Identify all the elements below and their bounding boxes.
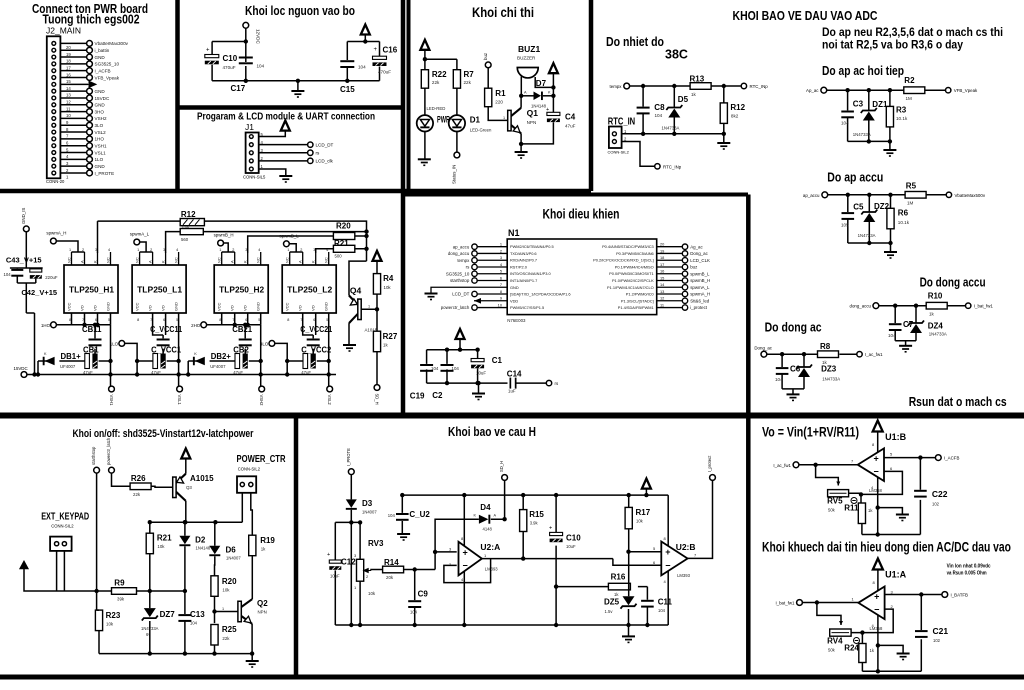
capacitor C8 xyxy=(637,107,650,115)
row B wire TLP250_L2 xyxy=(287,313,329,389)
svg-text:GND_IS: GND_IS xyxy=(21,208,26,224)
svg-text:VSL2: VSL2 xyxy=(327,395,332,406)
terminal Status_IN xyxy=(454,152,460,158)
svg-text:Do dong ac: Do dong ac xyxy=(765,320,822,334)
svg-text:2: 2 xyxy=(500,248,502,253)
wire spwmB_H to pins xyxy=(222,243,235,252)
svg-text:19: 19 xyxy=(660,248,664,253)
svg-text:Khoi khuech dai tin hieu dong: Khoi khuech dai tin hieu dong dien AC/DC… xyxy=(762,539,1011,554)
bottom rail ap accu xyxy=(848,242,891,244)
svg-text:VDD: VDD xyxy=(510,298,518,303)
terminal 3LO xyxy=(269,341,275,347)
resistor R15 xyxy=(520,510,527,532)
svg-text:RTC_INp: RTC_INp xyxy=(663,164,682,169)
wire ap accu rail xyxy=(828,194,946,196)
svg-text:I_bat_fw1: I_bat_fw1 xyxy=(775,601,795,606)
svg-text:50k: 50k xyxy=(828,508,836,513)
svg-text:R24: R24 xyxy=(844,644,859,653)
terminal 12VDC xyxy=(243,22,249,28)
svg-text:R5: R5 xyxy=(906,182,917,191)
svg-text:Q1: Q1 xyxy=(527,108,539,118)
wire power to caps C15 C16 xyxy=(347,35,379,81)
svg-text:Khoi loc nguon vao bo: Khoi loc nguon vao bo xyxy=(245,3,355,18)
wire R1 to Q1 base xyxy=(488,107,507,121)
svg-text:VCC: VCC xyxy=(217,302,222,311)
zener DZ1 xyxy=(861,108,877,121)
svg-text:R27: R27 xyxy=(383,332,398,341)
svg-text:1k: 1k xyxy=(691,92,697,97)
svg-text:VFB_Vpeak: VFB_Vpeak xyxy=(95,75,120,80)
svg-text:500: 500 xyxy=(335,254,343,259)
svg-text:buz: buz xyxy=(690,265,697,270)
svg-text:Khoi bao ve cau H: Khoi bao ve cau H xyxy=(448,425,536,439)
svg-text:C16: C16 xyxy=(383,46,398,55)
wire R26 to Q3 base xyxy=(151,486,173,487)
ground U1A xyxy=(897,654,910,660)
svg-text:11: 11 xyxy=(660,302,664,307)
svg-text:DZ4: DZ4 xyxy=(928,322,944,331)
optocoupler TLP250_L1 xyxy=(132,265,186,313)
svg-text:R12: R12 xyxy=(181,210,196,219)
power arrow J1 xyxy=(281,121,290,131)
wire U1B plus out to I_ACFB xyxy=(884,457,935,459)
svg-text:spwmA_H: spwmA_H xyxy=(46,231,66,236)
svg-text:R8: R8 xyxy=(820,342,831,351)
svg-text:C8: C8 xyxy=(654,103,665,112)
svg-text:GND: GND xyxy=(95,89,106,94)
terminal VFB_Vpeak xyxy=(946,88,951,93)
svg-text:3LO: 3LO xyxy=(260,341,269,346)
svg-text:220uF: 220uF xyxy=(45,275,58,280)
svg-text:K: K xyxy=(93,260,98,263)
svg-text:VSL1: VSL1 xyxy=(177,395,182,406)
wire bus2 L1 pin3 through R12b xyxy=(166,232,367,253)
N1 inner pin name texts xyxy=(510,244,655,310)
wire U2A power pins xyxy=(463,495,465,625)
diode DB2 xyxy=(193,357,205,366)
wire C12 column xyxy=(334,522,336,625)
svg-text:38C: 38C xyxy=(665,48,688,62)
svg-text:C4: C4 xyxy=(565,113,576,122)
resistor R20 onoff xyxy=(211,576,218,597)
svg-text:50k: 50k xyxy=(828,648,836,653)
svg-text:1.5v: 1.5v xyxy=(605,609,614,614)
svg-text:7: 7 xyxy=(500,282,502,287)
wire D4 wiring xyxy=(435,480,505,552)
svg-text:20: 20 xyxy=(66,45,71,50)
svg-text:1N4733A: 1N4733A xyxy=(853,132,871,137)
svg-text:C21: C21 xyxy=(933,626,949,636)
svg-text:R23: R23 xyxy=(106,611,121,620)
svg-text:10k: 10k xyxy=(636,519,644,524)
svg-text:C43_V+15: C43_V+15 xyxy=(6,256,42,265)
wire U1B power bottom xyxy=(878,477,903,534)
svg-text:D4: D4 xyxy=(480,503,491,512)
svg-text:C5: C5 xyxy=(853,203,864,212)
svg-text:VCC: VCC xyxy=(67,302,72,311)
wire C7 branch xyxy=(894,306,896,341)
svg-text:10uF: 10uF xyxy=(330,574,340,579)
svg-text:P0.3/PWM5/IC5/AIN6: P0.3/PWM5/IC5/AIN6 xyxy=(616,251,654,256)
svg-text:GND: GND xyxy=(256,302,261,311)
svg-text:1k: 1k xyxy=(929,312,935,317)
svg-text:NC: NC xyxy=(67,257,72,263)
svg-text:1: 1 xyxy=(503,116,505,120)
ground on off xyxy=(246,661,259,667)
wire 1LO column xyxy=(125,343,137,374)
wire LED D1 to Status terminal xyxy=(456,132,458,153)
svg-text:TLP250_L2: TLP250_L2 xyxy=(287,285,332,295)
svg-text:i_battin: i_battin xyxy=(95,48,110,53)
transistor Q2 xyxy=(238,599,252,624)
terminal Dong_ac xyxy=(761,351,767,357)
zener DZ2 xyxy=(861,210,877,223)
svg-text:D1: D1 xyxy=(470,115,481,124)
svg-text:12: 12 xyxy=(66,100,71,105)
svg-text:8: 8 xyxy=(500,289,502,294)
svg-text:19: 19 xyxy=(66,52,71,57)
svg-text:18: 18 xyxy=(660,255,664,260)
svg-text:SD_H: SD_H xyxy=(499,461,504,472)
terminal ap_accu xyxy=(822,192,828,198)
svg-text:VSH2: VSH2 xyxy=(95,116,107,121)
wire R6 branch xyxy=(890,195,892,252)
svg-text:NC: NC xyxy=(174,257,179,263)
svg-text:104: 104 xyxy=(410,610,418,615)
svg-text:R20: R20 xyxy=(222,577,237,586)
wire R7 to LED D1 xyxy=(456,88,458,115)
wire dong ac rail xyxy=(767,353,857,355)
svg-text:spwmB_H: spwmB_H xyxy=(690,278,710,283)
svg-text:A: A xyxy=(230,260,235,263)
svg-text:105: 105 xyxy=(841,223,849,228)
svg-text:104: 104 xyxy=(888,333,896,338)
svg-text:VO: VO xyxy=(161,305,166,311)
svg-text:+: + xyxy=(665,547,670,557)
terminal RTC_INp right xyxy=(741,83,746,88)
svg-text:R17: R17 xyxy=(636,508,651,517)
svg-text:Tuong thich egs002: Tuong thich egs002 xyxy=(43,13,140,27)
power arrow right xyxy=(361,25,370,35)
resistor R21 onoff xyxy=(146,533,153,554)
svg-text:R20: R20 xyxy=(336,222,351,231)
svg-text:D3: D3 xyxy=(362,499,373,508)
svg-text:GND: GND xyxy=(106,302,111,311)
svg-text:Stt&6_led: Stt&6_led xyxy=(690,298,710,303)
row B wire TLP250_H2 xyxy=(188,325,261,389)
svg-text:P0.1/PWM4/IC4/MISO: P0.1/PWM4/IC4/MISO xyxy=(615,264,654,269)
svg-text:C42_V+15: C42_V+15 xyxy=(21,288,57,297)
wire J1 pin5 to power xyxy=(259,131,286,137)
svg-text:GND: GND xyxy=(324,302,329,311)
svg-text:Do dong accu: Do dong accu xyxy=(920,276,986,290)
svg-text:47uF: 47uF xyxy=(565,124,576,129)
svg-text:10k: 10k xyxy=(157,544,165,549)
svg-text:560: 560 xyxy=(181,237,189,242)
wire Q3 collector down xyxy=(185,501,187,522)
svg-text:K: K xyxy=(311,260,316,263)
bottom rail U1B xyxy=(862,534,921,536)
svg-text:2HO: 2HO xyxy=(191,323,201,328)
svg-text:Ap_ac: Ap_ac xyxy=(806,88,819,93)
svg-text:P1.0/PWM2/IC2/SPCLK: P1.0/PWM2/IC2/SPCLK xyxy=(612,278,654,283)
svg-text:Vo = Vin(1+RV/R11): Vo = Vin(1+RV/R11) xyxy=(762,425,859,440)
svg-text:1: 1 xyxy=(500,242,502,247)
svg-text:R11: R11 xyxy=(844,504,859,513)
svg-text:8: 8 xyxy=(137,318,139,322)
svg-text:R10: R10 xyxy=(928,291,943,300)
svg-text:R15: R15 xyxy=(529,510,544,519)
wire buzzer right pin to power column xyxy=(535,77,553,87)
svg-text:R12: R12 xyxy=(730,103,745,112)
wire DZ1 branch xyxy=(868,90,870,141)
svg-text:3LO: 3LO xyxy=(95,123,104,128)
terminal VSH2 xyxy=(259,386,265,392)
terminal LCD_clk xyxy=(308,158,313,163)
svg-text:VCC: VCC xyxy=(285,302,290,311)
terminal RTC_INp lower xyxy=(655,164,660,169)
svg-text:spwmA_L: spwmA_L xyxy=(130,232,150,237)
svg-text:C_VCC11: C_VCC11 xyxy=(150,325,183,334)
bottom rail dong ac xyxy=(782,389,804,395)
svg-text:C12: C12 xyxy=(341,557,356,566)
svg-text:NC: NC xyxy=(285,257,290,263)
wire R22 to LED PWR xyxy=(424,88,426,115)
terminal starthstop xyxy=(94,467,100,473)
svg-text:−: − xyxy=(874,467,879,477)
diode D7 xyxy=(534,92,543,101)
wire DZ4 branch xyxy=(915,306,917,341)
bottom rail ap ac xyxy=(848,140,890,142)
terminal Ap_ac xyxy=(821,87,827,93)
svg-text:1: 1 xyxy=(222,607,224,611)
wire D3 to node row xyxy=(335,510,360,625)
wire pwr rail to R22 R7 xyxy=(425,50,457,70)
svg-text:220: 220 xyxy=(495,100,503,105)
svg-text:DZ3: DZ3 xyxy=(821,365,837,374)
svg-text:104: 104 xyxy=(358,65,366,70)
wire 12VDC to rail xyxy=(212,28,246,81)
svg-text:GND: GND xyxy=(174,302,179,311)
svg-text:C1: C1 xyxy=(492,356,503,365)
wire R14 to opamp plus xyxy=(404,552,457,570)
wire C6 branch xyxy=(781,354,783,389)
terminal buz xyxy=(485,62,491,68)
svg-text:15VDC: 15VDC xyxy=(14,366,28,371)
svg-text:U1:A: U1:A xyxy=(885,570,907,580)
svg-text:NC: NC xyxy=(106,257,111,263)
top VCC rail cau H xyxy=(402,494,668,496)
power arrow Q3 xyxy=(181,449,190,459)
svg-text:LED-RED: LED-RED xyxy=(427,106,446,111)
terminal I_bat_fw1 amp xyxy=(797,600,803,606)
svg-text:R26: R26 xyxy=(131,474,146,483)
svg-text:1M: 1M xyxy=(906,96,913,101)
svg-text:104: 104 xyxy=(775,377,783,382)
wire ap ac rail xyxy=(827,89,946,91)
node dots nhiet rail xyxy=(641,84,677,88)
resistor R12 adc xyxy=(720,103,727,124)
N1 right pin wires terminals xyxy=(657,242,711,311)
svg-text:BUZ1: BUZ1 xyxy=(518,44,540,54)
terminal LCD_DT xyxy=(308,142,313,147)
svg-text:U2:B: U2:B xyxy=(676,542,696,552)
node dots D7 power xyxy=(551,85,555,98)
svg-text:U1:B: U1:B xyxy=(885,432,907,442)
wire RV3 wiper to R14 xyxy=(371,570,383,571)
svg-text:TLP250_H2: TLP250_H2 xyxy=(219,285,264,295)
svg-text:buz: buz xyxy=(483,53,488,60)
svg-text:4: 4 xyxy=(108,248,110,252)
svg-text:SG3525_10: SG3525_10 xyxy=(95,62,120,67)
svg-text:Q3: Q3 xyxy=(186,485,192,490)
svg-text:R2: R2 xyxy=(904,76,915,85)
svg-text:NC: NC xyxy=(135,257,140,263)
svg-text:C_U2: C_U2 xyxy=(409,510,430,519)
wire R27 to SD_H terminal xyxy=(376,352,378,385)
svg-text:+: + xyxy=(546,107,549,113)
svg-text:C2: C2 xyxy=(432,391,443,400)
svg-text:LED-Green: LED-Green xyxy=(470,128,492,133)
svg-text:SG3525_10: SG3525_10 xyxy=(446,271,470,276)
power arrow dieu khien xyxy=(456,329,465,339)
terminal rs xyxy=(308,150,313,155)
wire D5 branch xyxy=(673,86,675,134)
terminal spwmB_L xyxy=(284,241,290,247)
svg-text:Dong_ac: Dong_ac xyxy=(754,346,772,351)
svg-text:1N4733A: 1N4733A xyxy=(858,233,876,238)
svg-text:VO: VO xyxy=(148,305,153,311)
resistor R2 xyxy=(904,87,925,94)
diode DB1 xyxy=(43,357,55,366)
capacitor C_U2 xyxy=(401,495,403,534)
svg-text:C9: C9 xyxy=(418,590,429,599)
svg-text:P0.4/AIN5/STADC/PWM3/IC3: P0.4/AIN5/STADC/PWM3/IC3 xyxy=(602,244,654,249)
resistor R10 xyxy=(926,302,947,309)
terminal tempx xyxy=(624,83,630,89)
svg-text:Rsun dat o mach cs: Rsun dat o mach cs xyxy=(909,394,1007,409)
wire C5 branch xyxy=(847,195,849,243)
potentiometer RV4 xyxy=(830,629,851,636)
zener DZ5 xyxy=(621,596,637,609)
svg-text:Khoi chi thi: Khoi chi thi xyxy=(472,5,534,20)
svg-text:I_ac_fw1: I_ac_fw1 xyxy=(865,352,883,357)
svg-text:5: 5 xyxy=(500,269,502,274)
svg-text:1N4733A: 1N4733A xyxy=(662,126,680,131)
svg-text:starthstop: starthstop xyxy=(450,278,470,283)
svg-text:DZ5: DZ5 xyxy=(604,598,620,607)
svg-text:I_PROTE: I_PROTE xyxy=(346,448,351,466)
wire DZ3 branch xyxy=(803,354,805,389)
optocoupler TLP250_L2 xyxy=(282,265,336,313)
wire GND_IS to caps xyxy=(10,232,43,375)
capacitor C7 xyxy=(889,323,902,331)
svg-text:C19: C19 xyxy=(410,392,425,401)
wire output row to U2B xyxy=(523,552,661,559)
capacitor C3 xyxy=(841,111,854,119)
svg-text:J1: J1 xyxy=(245,122,254,132)
wire spwmA_L to pins xyxy=(140,242,153,252)
svg-text:R9: R9 xyxy=(114,579,125,588)
svg-text:spwmA_H: spwmA_H xyxy=(690,292,710,297)
svg-text:GND: GND xyxy=(95,55,106,60)
svg-text:1N4007: 1N4007 xyxy=(362,510,377,515)
svg-text:Do ap accu: Do ap accu xyxy=(827,171,883,185)
capacitor C17 xyxy=(239,57,253,65)
J2_MAIN pin wires xyxy=(60,43,88,173)
terminal VbatteMax500v xyxy=(946,192,951,197)
wire R21 column xyxy=(149,522,151,608)
wire Q3 emitter to power xyxy=(185,459,187,474)
terminal I_ACFB xyxy=(935,455,941,461)
terminal VSH1 xyxy=(109,386,115,392)
zener D5 xyxy=(666,105,682,118)
wire D7 anode xyxy=(521,95,533,97)
capacitor C10 cau xyxy=(555,495,557,625)
svg-text:VSL2: VSL2 xyxy=(95,130,107,135)
svg-text:Vin lon nhat 0.09vdc: Vin lon nhat 0.09vdc xyxy=(947,564,991,570)
svg-text:1uF: 1uF xyxy=(508,389,516,394)
svg-text:NPN: NPN xyxy=(527,120,537,125)
svg-text:47uF: 47uF xyxy=(301,370,311,375)
wire R15 column xyxy=(522,495,524,558)
svg-text:spwmB_L: spwmB_L xyxy=(690,271,710,276)
svg-text:GND: GND xyxy=(95,103,106,108)
wire DZ7 to rail xyxy=(149,621,151,654)
wire POWER_CTR pins down xyxy=(242,493,252,535)
resistor R7 xyxy=(453,70,460,89)
wire Q1 collector xyxy=(520,96,522,108)
svg-text:17: 17 xyxy=(660,262,664,267)
svg-text:I_ACFB: I_ACFB xyxy=(944,456,959,461)
wire cap top rail xyxy=(427,339,478,364)
svg-text:I_ac_fw1: I_ac_fw1 xyxy=(773,463,791,468)
svg-text:1k: 1k xyxy=(261,547,266,552)
capacitor C19 xyxy=(420,364,433,372)
svg-text:1: 1 xyxy=(137,248,139,252)
svg-text:RXD/AIN2/P0.7: RXD/AIN2/P0.7 xyxy=(510,258,537,263)
capacitor C15 xyxy=(340,60,354,68)
wire R25 to rail xyxy=(214,645,216,654)
wire C14 to rs xyxy=(516,382,546,384)
svg-text:VO: VO xyxy=(311,305,316,311)
wire R24 to rail xyxy=(861,663,863,672)
wire I_bat_fw1 to apex xyxy=(802,602,858,604)
svg-text:VSH1: VSH1 xyxy=(109,395,114,407)
svg-text:15VDC: 15VDC xyxy=(95,96,110,101)
ground LED PWR xyxy=(418,159,431,165)
wire U1B power stem xyxy=(877,432,879,453)
svg-text:3.9k: 3.9k xyxy=(530,521,539,526)
svg-text:1: 1 xyxy=(69,248,71,252)
svg-text:12: 12 xyxy=(660,296,664,301)
svg-text:1M: 1M xyxy=(907,201,914,206)
svg-text:C11: C11 xyxy=(658,598,673,607)
svg-text:17: 17 xyxy=(66,65,71,70)
svg-text:1N4007: 1N4007 xyxy=(226,556,241,561)
wire R17 column xyxy=(628,495,630,596)
svg-text:LM393: LM393 xyxy=(485,566,498,571)
wire RV5 to R11 node xyxy=(849,493,861,503)
svg-text:102: 102 xyxy=(933,638,941,643)
svg-text:104: 104 xyxy=(4,272,12,277)
bottom rail dong accu xyxy=(895,341,916,346)
svg-text:1N4733A: 1N4733A xyxy=(929,332,947,337)
wire feedback down to RV4 xyxy=(817,603,841,626)
optocoupler TLP250_H2 xyxy=(214,265,268,313)
svg-text:powerctr_latch: powerctr_latch xyxy=(441,305,470,310)
svg-text:3: 3 xyxy=(500,255,502,260)
